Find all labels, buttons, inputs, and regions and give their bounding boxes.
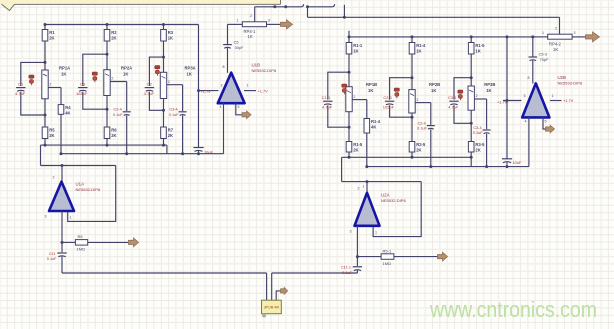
wire hop end A bbox=[301, 4, 303, 7]
capacitor C5 bbox=[223, 45, 232, 49]
svg-text:+1.7V: +1.7V bbox=[201, 89, 212, 94]
svg-text:3: 3 bbox=[350, 230, 352, 234]
wire RP4-2 tap up bbox=[559, 17, 561, 34]
junction rail1 right bbox=[470, 156, 473, 159]
port OUT2 bbox=[586, 32, 600, 42]
svg-text:3: 3 bbox=[45, 215, 47, 219]
svg-text:2K: 2K bbox=[475, 147, 480, 152]
wire cap C3-1 branch lower bbox=[454, 105, 471, 123]
junction top net C bbox=[306, 5, 309, 8]
wire cap to rail2 right bbox=[486, 134, 488, 167]
junction rail2 right bbox=[485, 165, 488, 168]
capacitor C1 bbox=[16, 88, 25, 92]
node R1 bottom bbox=[44, 61, 47, 64]
wire C5 to RP4-1 bbox=[228, 23, 243, 25]
wire top net B bbox=[308, 6, 333, 8]
wire cap C2 branch lower bbox=[149, 92, 163, 111]
wire top net drop bbox=[307, 7, 309, 17]
svg-text:U2B: U2B bbox=[558, 75, 567, 80]
svg-text:4K: 4K bbox=[371, 124, 376, 129]
wire U2B top pin bbox=[532, 60, 534, 84]
junction U1A out node bbox=[61, 241, 64, 244]
junction 10uF rail2 right bbox=[506, 165, 509, 168]
wire wiper drop bbox=[126, 82, 128, 112]
svg-text:1K: 1K bbox=[368, 88, 373, 93]
wire cap C1 branch lower bbox=[21, 92, 45, 115]
wire C5-3 to RP4-2 bbox=[533, 36, 548, 38]
svg-text:C5: C5 bbox=[234, 39, 239, 44]
wire R5-1 to port bbox=[394, 256, 438, 258]
wire U1B pin5 to port bbox=[236, 103, 243, 115]
node R2 bottom bbox=[106, 53, 109, 56]
wire cap to rail2 bbox=[126, 115, 128, 153]
wire RP4-2 out bbox=[572, 36, 586, 38]
svg-text:1K: 1K bbox=[187, 72, 192, 77]
capacitor C4-5 10uF bbox=[502, 159, 522, 167]
resistor R3 bbox=[161, 30, 174, 42]
svg-text:C11-1: C11-1 bbox=[341, 266, 351, 270]
svg-text:1K: 1K bbox=[553, 47, 558, 52]
junction rail2 right bbox=[365, 165, 368, 168]
capacitor C5-3 bbox=[529, 57, 538, 61]
svg-text:RP2B: RP2B bbox=[429, 82, 440, 87]
svg-text:10uF: 10uF bbox=[204, 149, 213, 154]
svg-text:2: 2 bbox=[476, 94, 478, 98]
svg-text:4K: 4K bbox=[65, 110, 70, 115]
potentiometer RP2B bbox=[409, 90, 415, 113]
junction link bbox=[343, 16, 346, 19]
svg-text:C3: C3 bbox=[80, 81, 86, 86]
svg-text:8: 8 bbox=[528, 76, 530, 80]
node pot RP2A bottom bbox=[106, 108, 109, 111]
svg-text:www.cntronics.com: www.cntronics.com bbox=[429, 297, 597, 322]
wire into connector pin1 bbox=[266, 273, 268, 300]
junction right rail 3 bbox=[470, 35, 473, 38]
wire hop end B bbox=[332, 4, 334, 7]
svg-text:C3-4: C3-4 bbox=[473, 126, 481, 130]
svg-text:1K: 1K bbox=[61, 72, 66, 77]
wire cap C3 branch upper bbox=[83, 54, 107, 86]
resistor R5 bbox=[42, 127, 55, 139]
node pot RP2B bottom bbox=[411, 116, 414, 119]
resistor R1-4b bbox=[364, 119, 381, 134]
wire pot RP2A top stub bbox=[106, 54, 108, 69]
svg-text:1K: 1K bbox=[486, 88, 491, 93]
wire cap C2-1 branch lower bbox=[390, 105, 412, 117]
svg-text:4.7uF: 4.7uF bbox=[448, 105, 459, 110]
wire R1-1 to node bbox=[348, 54, 350, 72]
capacitor C3-1 bbox=[449, 101, 458, 105]
pot symbol RP2A bbox=[92, 72, 97, 82]
resistor R1-1 bbox=[346, 43, 363, 55]
wire pot RP2B top stub bbox=[411, 78, 413, 90]
port feedback L bbox=[129, 238, 139, 247]
node R1-4 bottom bbox=[411, 76, 414, 79]
wire R3 to node bbox=[163, 41, 165, 57]
left rail1 bbox=[41, 144, 167, 146]
svg-text:1MΩ: 1MΩ bbox=[383, 261, 392, 266]
junction rail1 bbox=[106, 144, 109, 147]
wire U2B pin4 to rail2 bbox=[528, 117, 530, 166]
wire U2A top horizontal bbox=[342, 181, 422, 183]
wire R1-4 top stub bbox=[411, 37, 413, 43]
wire RP3B wiper bbox=[474, 98, 486, 100]
svg-text:1K: 1K bbox=[416, 48, 421, 53]
svg-text:102pF: 102pF bbox=[383, 105, 395, 110]
svg-text:4.7uF: 4.7uF bbox=[322, 105, 333, 110]
wire U1B top pin bbox=[227, 48, 229, 73]
svg-text:8: 8 bbox=[223, 65, 225, 69]
capacitor C2 bbox=[145, 88, 154, 92]
wire pot RP3A top stub bbox=[163, 57, 165, 72]
wire U2B pin5 to port bbox=[543, 117, 547, 129]
wire connector pin3 to port bbox=[276, 291, 280, 300]
wire lower resistor to rail1 right bbox=[411, 152, 413, 157]
svg-text:NE5532-DIP8: NE5532-DIP8 bbox=[558, 81, 583, 86]
svg-text:2: 2 bbox=[111, 77, 113, 81]
node R1-1 bottom bbox=[348, 71, 351, 74]
node pot RP3B bottom bbox=[470, 122, 473, 125]
wire into connector pin2 bbox=[271, 273, 273, 300]
wire U2B inverting feed vertical bbox=[506, 37, 508, 159]
op-amp U2B bbox=[522, 75, 583, 117]
svg-text:C2-4: C2-4 bbox=[418, 121, 426, 125]
svg-text:0.1uF: 0.1uF bbox=[342, 271, 352, 275]
wire pot RP1B bottom stub bbox=[348, 112, 350, 128]
wire U2A +in vertical bbox=[366, 182, 368, 193]
junction C5-3 top bbox=[531, 35, 534, 38]
svg-text:2: 2 bbox=[353, 95, 355, 99]
wire RP2A wiper bbox=[110, 81, 127, 83]
svg-text:3: 3 bbox=[574, 31, 576, 35]
svg-text:1: 1 bbox=[542, 31, 544, 35]
wire rail1 drop to U1A bbox=[40, 145, 42, 165]
potentiometer RP1B bbox=[346, 87, 352, 112]
wire link stub up bbox=[343, 5, 345, 17]
svg-text:1: 1 bbox=[375, 231, 377, 235]
svg-text:1: 1 bbox=[70, 216, 72, 220]
resistor R2 bbox=[104, 30, 117, 42]
pot symbol RP1A bbox=[29, 75, 34, 85]
wire R5 to port bbox=[88, 241, 129, 243]
wire U2B -in pin bbox=[503, 100, 522, 102]
pot symbol RP1B bbox=[342, 84, 347, 94]
node pot RP1B bottom bbox=[348, 126, 351, 129]
pot symbol RP3A bbox=[155, 66, 160, 76]
wire U1B pin4 to rail2 bbox=[223, 103, 225, 154]
wire to lower resistor bbox=[411, 117, 413, 141]
wire C11 to bottom net bbox=[61, 256, 63, 273]
wire R2 top stub bbox=[106, 25, 108, 30]
wire cap to rail2 bbox=[182, 115, 184, 153]
port OUT1 bbox=[281, 20, 293, 29]
junction right rail C bbox=[506, 35, 509, 38]
svg-text:2: 2 bbox=[250, 14, 252, 18]
wire R1-5 top stub bbox=[470, 37, 472, 43]
wire U2B out pin bbox=[550, 100, 562, 102]
junction rail R2 bbox=[106, 23, 109, 26]
wire lower resistor to rail1 bbox=[163, 139, 165, 146]
resistor R1-4 bbox=[409, 43, 426, 55]
potentiometer RP1A bbox=[42, 70, 48, 99]
svg-text:2: 2 bbox=[555, 26, 557, 30]
wire top net A bbox=[255, 6, 302, 8]
resistor R5-1 bbox=[381, 248, 394, 265]
wire lower resistor to rail1 right bbox=[348, 152, 350, 157]
svg-text:R5-1: R5-1 bbox=[383, 248, 392, 253]
svg-text:NE5532-DIP8: NE5532-DIP8 bbox=[381, 198, 406, 203]
node R1-5 bottom bbox=[470, 76, 473, 79]
svg-text:+1.7V: +1.7V bbox=[563, 98, 574, 103]
wire wiper drop bbox=[430, 103, 432, 125]
wire R1-5 to node bbox=[470, 54, 472, 78]
svg-text:5: 5 bbox=[238, 105, 240, 109]
bottom net left segment bbox=[62, 272, 267, 274]
wire RP3A wiper bbox=[167, 84, 183, 86]
svg-text:102pF: 102pF bbox=[76, 91, 88, 96]
svg-text:1: 1 bbox=[363, 185, 365, 189]
wire wiper drop bbox=[366, 100, 368, 119]
wire lower resistor to rail1 bbox=[44, 139, 46, 146]
svg-text:2: 2 bbox=[49, 83, 51, 87]
wire U1B -in pin bbox=[199, 90, 219, 92]
wire C11-1 to bottom net bbox=[356, 270, 358, 273]
left rail2 bbox=[61, 153, 224, 155]
svg-text:C3-1: C3-1 bbox=[448, 95, 457, 100]
svg-text:1K: 1K bbox=[123, 72, 128, 77]
junction right rail 2 bbox=[411, 35, 414, 38]
wire R3 top stub bbox=[163, 25, 165, 30]
wire pot RP3B bottom stub bbox=[470, 110, 472, 123]
resistor R1-5 bbox=[346, 142, 363, 153]
capacitor C3-4 bbox=[179, 112, 187, 116]
junction rail2 bbox=[60, 152, 63, 155]
power port U1B bbox=[242, 111, 251, 119]
svg-text:1MΩ: 1MΩ bbox=[77, 247, 86, 252]
svg-text:C3-4: C3-4 bbox=[169, 108, 177, 112]
node pot RP1A bottom bbox=[44, 114, 47, 117]
resistor R5 bbox=[75, 234, 87, 251]
node U2A +in bbox=[366, 180, 369, 183]
capacitor C11-1 bbox=[341, 266, 362, 275]
junction rail2 right bbox=[429, 165, 432, 168]
svg-text:30pF: 30pF bbox=[235, 45, 244, 50]
svg-text:C11: C11 bbox=[49, 252, 56, 256]
svg-text:U2A: U2A bbox=[381, 193, 390, 198]
op-amp U1B bbox=[218, 63, 277, 104]
junction top net B bbox=[284, 5, 287, 8]
svg-text:RP2A: RP2A bbox=[121, 66, 132, 71]
wire RP4-1 out bbox=[267, 23, 282, 25]
resistor R4 bbox=[58, 105, 71, 116]
op-amp U2A bbox=[355, 193, 407, 226]
wire U1A out down bbox=[61, 211, 63, 252]
capacitor C2-6 bbox=[427, 126, 435, 130]
wire R4 to rail2 bbox=[60, 114, 62, 153]
wire C5-3 up bbox=[532, 37, 534, 57]
wire RP1B wiper bbox=[352, 99, 367, 101]
junction top net A bbox=[273, 5, 276, 8]
right rail2 bbox=[367, 166, 529, 168]
svg-text:R5: R5 bbox=[78, 234, 84, 239]
right rail1 bbox=[342, 156, 472, 158]
svg-text:2: 2 bbox=[416, 98, 418, 102]
svg-text:RP1B: RP1B bbox=[366, 82, 377, 87]
svg-text:U1A: U1A bbox=[76, 182, 85, 187]
wire cap to rail2 right bbox=[430, 129, 432, 166]
node pot RP3A bottom bbox=[162, 109, 165, 112]
svg-text:+1.7V: +1.7V bbox=[497, 99, 508, 104]
wire wiper drop bbox=[60, 88, 62, 105]
wire C5 up bbox=[227, 24, 229, 44]
wire cap C1-1 branch lower bbox=[328, 105, 349, 127]
svg-text:0.1uF: 0.1uF bbox=[113, 113, 123, 117]
svg-text:C1-1: C1-1 bbox=[322, 95, 331, 100]
capacitor C2-1 bbox=[385, 101, 394, 105]
wire rail1 to rail2 drop bbox=[166, 145, 168, 154]
power port U2B bbox=[546, 125, 555, 133]
wire to lower resistor bbox=[470, 123, 472, 141]
svg-text:5: 5 bbox=[545, 120, 547, 124]
svg-text:4: 4 bbox=[525, 120, 527, 124]
svg-text:2: 2 bbox=[53, 176, 55, 180]
wire R1 top stub bbox=[44, 25, 46, 30]
svg-text:2: 2 bbox=[168, 80, 170, 84]
wire to rail2 right bbox=[366, 133, 368, 167]
junction rail1 right bbox=[411, 156, 414, 159]
svg-text:70pF: 70pF bbox=[540, 57, 549, 62]
wire RP1A wiper bbox=[48, 87, 61, 89]
potentiometer RP2A bbox=[104, 70, 110, 96]
wire U1A top horizontal bbox=[41, 165, 116, 167]
svg-text:3: 3 bbox=[221, 84, 223, 88]
pot symbol RP2B bbox=[394, 88, 399, 98]
wire U1B inverting feed vertical bbox=[198, 25, 200, 148]
wire RP2B wiper bbox=[415, 102, 431, 104]
resistor R7 bbox=[161, 127, 174, 139]
svg-text:2K: 2K bbox=[168, 133, 173, 138]
wire RP4-1 tap up bbox=[254, 7, 256, 22]
wire to lower resistor bbox=[44, 115, 46, 127]
svg-text:2K: 2K bbox=[111, 35, 116, 40]
svg-text:2K: 2K bbox=[416, 147, 421, 152]
svg-text:3: 3 bbox=[524, 94, 526, 98]
junction rail1 bbox=[44, 144, 47, 147]
svg-text:C2-1: C2-1 bbox=[383, 95, 392, 100]
svg-text:1: 1 bbox=[237, 19, 239, 23]
potentiometer RP4-1 bbox=[242, 22, 266, 39]
wire cap C1-1 branch upper bbox=[328, 72, 349, 99]
wire to lower resistor bbox=[163, 110, 165, 127]
svg-text:4: 4 bbox=[220, 105, 222, 109]
wire U2A feedback loop bbox=[373, 182, 421, 237]
svg-text:NE5532-DIP8: NE5532-DIP8 bbox=[76, 187, 101, 192]
wire to lower resistor bbox=[348, 127, 350, 141]
svg-text:RP1A: RP1A bbox=[59, 66, 70, 71]
junction rail2 bbox=[125, 152, 128, 155]
svg-text:C2: C2 bbox=[147, 81, 153, 86]
node U1B -in bbox=[197, 89, 200, 92]
capacitor C11 bbox=[47, 252, 67, 261]
capacitor C3-6 bbox=[483, 130, 491, 134]
wire R1-4 to node bbox=[411, 54, 413, 78]
wire cap C2 branch upper bbox=[149, 57, 163, 86]
resistor R6 bbox=[104, 127, 117, 139]
wire cap C3 branch lower bbox=[83, 92, 107, 110]
svg-text:2K: 2K bbox=[353, 147, 358, 152]
resistor R2-5 bbox=[409, 142, 426, 153]
junction rail1 right bbox=[348, 156, 351, 159]
svg-text:1K: 1K bbox=[353, 48, 358, 53]
junction rail1 bbox=[162, 144, 165, 147]
wire pot RP2B bottom stub bbox=[411, 113, 413, 117]
capacitor C9 10uF bbox=[194, 148, 214, 155]
wire pot RP2A bottom stub bbox=[106, 96, 108, 110]
svg-text:2: 2 bbox=[358, 187, 360, 191]
svg-text:4.7uF: 4.7uF bbox=[15, 91, 26, 96]
svg-text:0.1uF: 0.1uF bbox=[473, 131, 483, 135]
wire R1 to node bbox=[44, 41, 46, 62]
svg-text:2K: 2K bbox=[49, 133, 54, 138]
resistor R3-5 bbox=[468, 142, 485, 153]
svg-text:0.1uF: 0.1uF bbox=[169, 113, 179, 117]
wire pot RP1A bottom stub bbox=[44, 99, 46, 115]
junction right rail 1 bbox=[348, 35, 351, 38]
wire cap C1 branch upper bbox=[21, 62, 45, 86]
bottom net right segment bbox=[272, 272, 358, 274]
node R3 bottom bbox=[162, 56, 165, 59]
potentiometer RP4-2 bbox=[548, 34, 572, 52]
capacitor C3 bbox=[78, 88, 87, 92]
wire to R5 bbox=[62, 241, 75, 243]
wire R2 to node bbox=[106, 41, 108, 54]
svg-text:C1: C1 bbox=[18, 81, 24, 86]
junction rail2 bbox=[181, 152, 184, 155]
wire wiper drop bbox=[182, 85, 184, 111]
node U1A +in bbox=[61, 164, 64, 167]
wire U1A +in vertical bbox=[61, 166, 63, 182]
svg-text:NE5532-DIP8: NE5532-DIP8 bbox=[252, 68, 277, 73]
svg-text:1K: 1K bbox=[475, 48, 480, 53]
svg-text:RP3A: RP3A bbox=[185, 66, 196, 71]
svg-text:+1.7V: +1.7V bbox=[258, 88, 269, 93]
svg-text:1K: 1K bbox=[248, 34, 253, 39]
potentiometer RP3B bbox=[468, 86, 474, 110]
wire cap C2-1 branch upper bbox=[390, 78, 412, 100]
svg-text:RP4-1: RP4-1 bbox=[244, 29, 257, 34]
wire pot RP3B top stub bbox=[470, 78, 472, 86]
sheet edge notch bbox=[2, 0, 15, 11]
wire rail1 to rail2 drop right bbox=[470, 157, 472, 166]
op-amp U1A bbox=[49, 182, 101, 212]
top sheet edge band bbox=[0, 0, 281, 4]
junction 10uF rail2 bbox=[197, 152, 200, 155]
svg-text:JP/JR-4R: JP/JR-4R bbox=[264, 306, 280, 310]
wire U2A out down bbox=[356, 226, 358, 266]
svg-text:10uF: 10uF bbox=[513, 160, 522, 165]
wire link to right section bbox=[308, 16, 560, 18]
svg-text:2K: 2K bbox=[111, 133, 116, 138]
wire pot RP1A top stub bbox=[44, 62, 46, 70]
left top rail bbox=[45, 24, 199, 26]
wire lower resistor to rail1 bbox=[106, 139, 108, 146]
junction U2A out node bbox=[356, 255, 359, 258]
svg-text:0.1uF: 0.1uF bbox=[47, 257, 57, 261]
svg-text:4.7uF: 4.7uF bbox=[144, 91, 155, 96]
svg-text:RP3B: RP3B bbox=[484, 82, 495, 87]
junction rail R3 bbox=[162, 23, 165, 26]
port at connector bbox=[281, 288, 288, 295]
